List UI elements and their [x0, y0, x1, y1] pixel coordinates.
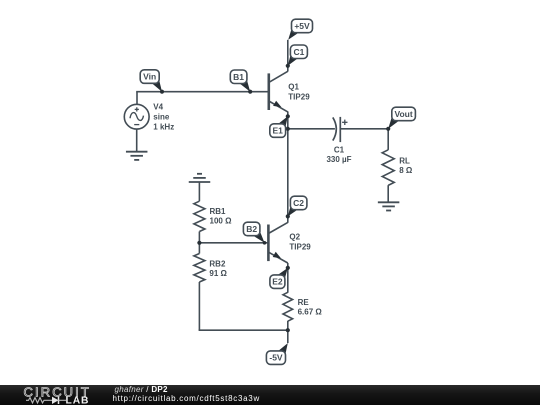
- svg-text:RL: RL: [399, 156, 410, 165]
- resistor RB2: [194, 254, 205, 283]
- svg-text:TIP29: TIP29: [288, 92, 310, 101]
- svg-text:C1: C1: [334, 145, 345, 154]
- node label Vout: [388, 107, 415, 129]
- junction dot: C2 node (Q2 collector): [286, 214, 290, 218]
- label V4 sine 1 kHz: [153, 103, 174, 132]
- svg-text:Vout: Vout: [394, 109, 412, 119]
- svg-text:RB2: RB2: [209, 259, 226, 268]
- svg-text:B1: B1: [233, 72, 244, 82]
- junction dot: -5V node: [286, 328, 290, 332]
- label C1 330 µF: [326, 145, 351, 164]
- junction dot: B2 pin: [263, 241, 267, 245]
- svg-text:91 Ω: 91 Ω: [209, 269, 227, 278]
- svg-text:Q2: Q2: [289, 233, 300, 242]
- node label E2: [270, 268, 288, 289]
- svg-text:1 kHz: 1 kHz: [153, 122, 174, 131]
- power label +5V: [288, 19, 312, 40]
- wire: Q1 emitter vertical to E1: [287, 112, 289, 130]
- node label E1: [270, 116, 288, 137]
- wire: RL bottom to ground: [387, 185, 389, 202]
- wire: Vout down to RL top: [387, 128, 389, 150]
- label RL 8 Ω: [399, 156, 413, 175]
- junction dot: E1 pin: [286, 114, 290, 118]
- resistor RB1: [194, 201, 205, 231]
- svg-text:sine: sine: [153, 113, 170, 122]
- junction dot: B1 node: [248, 90, 252, 94]
- resistor RE: [283, 292, 293, 321]
- wire: E1 down to C2 junction (Q2 collector): [287, 129, 289, 223]
- wire: RE bottom to -5V junction and stub: [287, 321, 289, 343]
- junction dot: Vout node: [386, 127, 390, 131]
- CircuitLab logo wordmark LAB: [66, 395, 90, 405]
- node label B1: [230, 70, 250, 92]
- ground (RB1 top, inverted): [189, 174, 211, 182]
- ground (V4): [126, 152, 148, 160]
- CircuitLab logo resistor-diode icon: [26, 396, 66, 403]
- label RE 6.67 Ω: [298, 298, 323, 317]
- power label -5V: [266, 343, 287, 364]
- svg-text:E2: E2: [272, 277, 283, 287]
- svg-text:100 Ω: 100 Ω: [210, 217, 233, 226]
- svg-text:6.67 Ω: 6.67 Ω: [298, 308, 323, 317]
- svg-text:C1: C1: [293, 47, 304, 57]
- svg-text:RB1: RB1: [210, 207, 227, 216]
- junction dot: RB1/RB2/B2 node: [197, 241, 201, 245]
- ground (RL): [378, 202, 400, 210]
- svg-text:LAB: LAB: [66, 395, 90, 405]
- svg-text:330 µF: 330 µF: [326, 155, 351, 164]
- svg-text:-5V: -5V: [269, 353, 283, 363]
- svg-text:Q1: Q1: [288, 83, 299, 92]
- wire: capacitor C1 right plate to Vout corner: [340, 128, 388, 130]
- wire: E1 horizontal to capacitor C1 left plate: [288, 128, 335, 130]
- voltage source V4: [124, 104, 149, 129]
- node label C2: [288, 196, 307, 216]
- wire: E2 to RE top: [287, 268, 289, 293]
- junction dot: Vin node: [160, 90, 164, 94]
- wire: bottom horizontal to -5V junction: [199, 329, 288, 331]
- wire: V4 top lead: [136, 92, 138, 105]
- junction dot: E2 pin: [286, 266, 290, 270]
- svg-text:TIP29: TIP29: [289, 242, 311, 251]
- svg-text:C2: C2: [293, 198, 304, 208]
- transistor Q1: [269, 71, 288, 112]
- wire: Vin/B1 horizontal net from V4 to Q1 base: [136, 91, 269, 93]
- wire: +5V stub down to C1 junction: [287, 40, 289, 72]
- transistor Q2: [268, 222, 287, 263]
- label Q2 TIP29: [289, 233, 311, 252]
- node label B2: [243, 222, 264, 243]
- svg-text:B2: B2: [246, 224, 257, 234]
- svg-text:RE: RE: [298, 298, 310, 307]
- wire: RB1 bottom to B2 junction: [198, 232, 200, 243]
- node label C1: [288, 45, 308, 66]
- junction dot: C1 node (Q1 collector): [286, 64, 290, 68]
- svg-text:+5V: +5V: [294, 21, 310, 31]
- label Q1 TIP29: [288, 83, 310, 102]
- capacitor C1 (polarized): [333, 117, 348, 142]
- label RB2 91 Ω: [209, 259, 227, 278]
- CircuitLab logo wordmark CIRCUIT: [24, 384, 91, 399]
- wire: B2 junction to RB2 top: [198, 243, 200, 254]
- svg-text:E1: E1: [272, 126, 283, 136]
- resistor RL: [382, 150, 394, 186]
- wire: Q2 emitter vertical to E2: [287, 263, 289, 268]
- label RB1 100 Ω: [210, 207, 233, 226]
- wire: V4 bottom lead to ground: [136, 129, 138, 152]
- junction dot: E1 wire T: [286, 127, 290, 131]
- svg-text:8 Ω: 8 Ω: [399, 166, 413, 175]
- wire: B2 horizontal to Q2 base: [199, 242, 268, 244]
- svg-text:V4: V4: [153, 103, 163, 112]
- svg-text:Vin: Vin: [143, 72, 156, 82]
- wire: RB2 bottom down to corner: [198, 282, 200, 330]
- node label Vin: [140, 70, 162, 92]
- wire: ground stem to RB1 top: [198, 182, 200, 201]
